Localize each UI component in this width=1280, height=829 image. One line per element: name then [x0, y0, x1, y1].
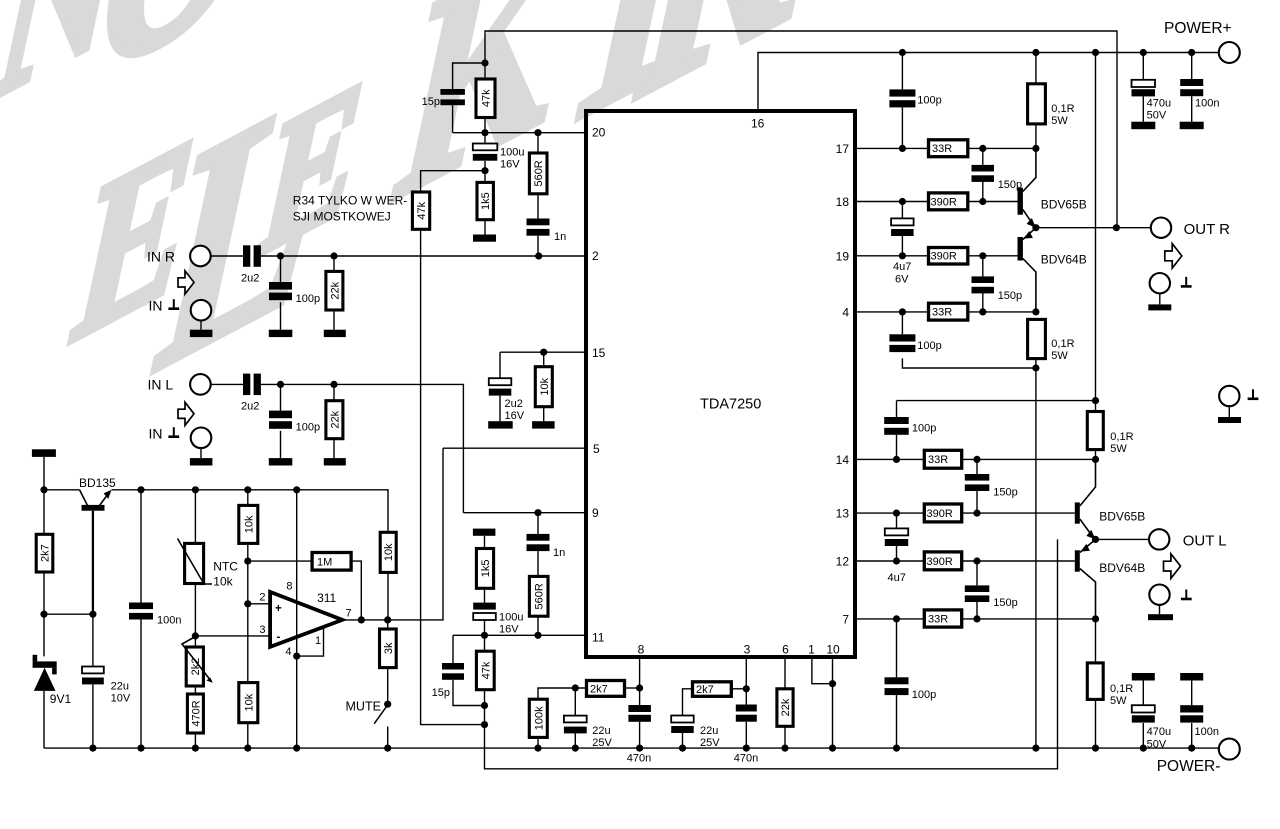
wire wire 22k to gnd [333, 439, 335, 458]
node junction collector BDV64B/0.1R [1032, 308, 1039, 315]
node junction rail/opamp supply [293, 486, 300, 493]
wire wire divider middle [247, 543, 249, 682]
svg-text:25V: 25V [592, 737, 612, 749]
svg-text:NTC: NTC [213, 560, 238, 574]
resistor R 33R pin14 [924, 450, 961, 468]
node junction POWER- rail/100k [534, 745, 541, 752]
wire wire op-amp pin 1 strap [297, 627, 324, 656]
resistor R 1k5 right [477, 182, 493, 219]
svg-text:150p: 150p [998, 290, 1022, 302]
capacitor C 470n first [628, 705, 651, 712]
resistor R 22k pin6 [777, 689, 793, 727]
terminal POWER- terminal [1219, 739, 1240, 760]
wire wire 22u to POWER- rail [574, 733, 576, 748]
node junction 390R/150p left [973, 509, 980, 516]
capacitor C 100p input right [269, 282, 292, 290]
resistor R 3k mute [380, 629, 397, 668]
svg-text:390R: 390R [927, 556, 953, 568]
wire wire 33R pin14 to 0.1R node [962, 458, 1096, 460]
svg-text:15p: 15p [422, 96, 440, 108]
node junction NTC/2k2/minus [192, 632, 199, 639]
wire wire 0.1R to pin14 node [1095, 450, 1097, 460]
node junction POWER- rail/opamp pin4 [293, 745, 300, 752]
node node A 15p/47k/rail [481, 59, 488, 66]
wire wire 390R to BDV65B base [968, 201, 1018, 203]
svg-text:4: 4 [842, 306, 849, 320]
ground ground 22k left [324, 458, 346, 465]
wire wire POWER+ to 0.1R right top [1035, 53, 1037, 84]
capacitor C 1n left [527, 534, 550, 541]
resistor R 0.1R 5W right bottom [1028, 319, 1046, 358]
wire wire junction to R34 [421, 171, 485, 192]
ground bar under 100n top [1180, 122, 1204, 130]
wire wire pin 13 line [855, 512, 925, 514]
node junction 2k7/22u first [572, 684, 579, 691]
svg-text:50V: 50V [1147, 110, 1167, 122]
resistor R 1M feedback [312, 553, 351, 571]
capacitor C 100p pin14 [884, 417, 909, 424]
wire wire NTC to minus node [194, 584, 196, 636]
node junction 47k/R34 [481, 721, 488, 728]
ground ground spare top right [1218, 417, 1241, 423]
node junction POWER- rail/470u bottom [1140, 745, 1147, 752]
wire wire 22u to POWER- rail [92, 684, 94, 748]
svg-text:311: 311 [317, 591, 336, 605]
wire wire pin 17 line [855, 147, 929, 149]
wire wire pin 1 strap [812, 657, 833, 684]
node junction INL/100p [277, 381, 284, 388]
capacitor C 100n top [1180, 79, 1203, 86]
wire wire 100p pin14 top link [897, 400, 1096, 402]
wire wire 100p to pin17 [901, 107, 903, 148]
wire wire 15p bottom to pin20 line [452, 105, 454, 133]
svg-text:BDV65B: BDV65B [1041, 198, 1087, 212]
wire wire POWER+ to 100p pin17 [901, 53, 903, 90]
svg-text:2u2: 2u2 [241, 273, 259, 285]
wire wire 390R to BDV65B base left [962, 512, 1075, 514]
svg-text:470R: 470R [190, 700, 202, 726]
op-amp U2 311 [270, 592, 342, 647]
transistor Q5 BDV64B left [1075, 550, 1080, 571]
wire wire pin 10 to POWER- rail [832, 657, 834, 748]
capacitor C 150p left low [965, 585, 990, 592]
svg-text:BDV64B: BDV64B [1041, 253, 1087, 267]
node mute switch pivot [384, 701, 391, 708]
svg-text:22k: 22k [329, 410, 341, 428]
wire wire to 100p L [280, 384, 282, 410]
resistor R 33R pin17 [929, 140, 968, 157]
node junction collector/0.1R left bottom [1092, 615, 1099, 622]
wire wire 33R pin4 to 0.1R [968, 311, 1036, 313]
ground bar under 1k5 right [473, 235, 496, 242]
svg-text:5W: 5W [1110, 695, 1127, 707]
svg-text:22u: 22u [111, 681, 129, 693]
svg-text:33R: 33R [928, 454, 948, 466]
wire wire 22k to POWER- rail [784, 726, 786, 748]
node junction divider/1M [244, 558, 251, 565]
svg-text:100p: 100p [296, 293, 320, 305]
ground ground 100p left [269, 458, 293, 465]
node junction pin17/100p [899, 145, 906, 152]
wire wire 2u2 to pin 2 [261, 255, 586, 257]
svg-text:TDA7250: TDA7250 [700, 397, 761, 413]
svg-text:33R: 33R [928, 614, 948, 626]
svg-text:5W: 5W [1051, 115, 1068, 127]
wire wire pin 5 line [443, 447, 586, 449]
node junction rail/NTC [192, 486, 199, 493]
ground symbol earth glyph OUT L [1185, 590, 1187, 599]
wire wire 150p to pin7 [976, 602, 978, 619]
wire wire pin 18 line [855, 201, 929, 203]
svg-text:10k: 10k [539, 377, 551, 395]
wire wire 2u2 to gnd [499, 396, 501, 422]
wire wire junction to 1k5 [484, 171, 486, 183]
node junction INR/100p [277, 252, 284, 259]
node junction 33R/150p pin14 [973, 456, 980, 463]
node junction POWER- rail/100p pin7 [893, 745, 900, 752]
resistor R 10k divider top [239, 505, 258, 543]
wire wire POWER- rail [44, 747, 1219, 749]
svg-text:7: 7 [842, 613, 849, 627]
node junction 0.1R/collector left [1092, 456, 1099, 463]
node junction pin4/100p [899, 308, 906, 315]
svg-text:7: 7 [346, 608, 352, 620]
svg-text:15: 15 [592, 346, 606, 360]
node junction V-/100p return [1032, 364, 1039, 371]
resistor R 0.1R 5W right top [1028, 84, 1046, 124]
wire wire 560R to 1n [537, 194, 539, 219]
capacitor C 100n bottom [1180, 705, 1203, 712]
node junction pin4/pin1 [293, 653, 300, 660]
resistor R 22k input left [326, 401, 343, 439]
wire wire IN L to 2u2 [211, 383, 243, 385]
wire wire to 150p top right [982, 148, 984, 165]
wire wire IN L to pin 9 drop [261, 384, 464, 512]
svg-text:3: 3 [744, 643, 751, 657]
resistor R 1k5 left [476, 549, 493, 589]
wire wire feedback OUT L long path [485, 539, 1058, 768]
wire wire 1M right to output [351, 561, 361, 620]
svg-text:4u7: 4u7 [888, 572, 906, 584]
wire feedback rail OUT R to 15p/47k node [485, 31, 1117, 228]
node junction OUTR/feedback rail [1113, 224, 1120, 231]
svg-text:2k7: 2k7 [40, 544, 52, 562]
svg-text:16V: 16V [505, 410, 525, 422]
node junction POWER+/100n [1188, 49, 1195, 56]
node junction POWER- rail/pin10 [829, 745, 836, 752]
wire wire bar to 100n bottom [1191, 681, 1193, 706]
wire wire zener to POWER- rail [43, 691, 45, 748]
capacitor C 100p pin4 [889, 334, 915, 341]
wire wire pin 9 line [463, 512, 586, 514]
node junction pin12/4u7 [893, 557, 900, 564]
resistor R 100k [529, 699, 547, 737]
svg-text:BD135: BD135 [79, 476, 116, 490]
resistor R 2k7 pin8 [587, 681, 625, 697]
wire wire pin 3 down [745, 657, 747, 705]
svg-text:8: 8 [286, 581, 292, 593]
resistor R 47k lower left [476, 651, 494, 690]
capacitor C 100u 16V left [473, 603, 496, 610]
node junction pin7/100p [893, 615, 900, 622]
wire wire zener node to base node [44, 613, 93, 615]
terminal OUT R ground connector [1150, 273, 1170, 293]
wire wire 1k5 to 100u left [484, 588, 486, 602]
node junction 33R/150p pin4 [979, 308, 986, 315]
wire wire pin 15 line [500, 351, 586, 353]
svg-text:17: 17 [836, 142, 850, 156]
wire wire pin 6 down [784, 657, 786, 689]
svg-text:47k: 47k [416, 201, 428, 219]
svg-text:2: 2 [592, 249, 599, 263]
svg-text:560R: 560R [533, 160, 545, 186]
wire wire 2k7 to zener node [43, 572, 45, 614]
ground bar under 470u top [1131, 122, 1155, 130]
wire wire to 150p left top [976, 459, 978, 474]
wire wire 0.1R bottom to POWER- rail V- [1035, 359, 1037, 748]
ground ground IN left [190, 458, 213, 465]
wire wire 15p to 47k node [453, 680, 485, 706]
wire wire 560R to pin11 [537, 616, 539, 635]
wire wire op-amp plus input [248, 603, 270, 605]
node junction 390R/150p left low [973, 557, 980, 564]
terminal spare ground connector top [1219, 386, 1239, 406]
svg-text:100u: 100u [500, 147, 524, 159]
wire wire 100n bottom to rail [1191, 723, 1193, 748]
svg-text:22u: 22u [700, 725, 718, 737]
svg-text:OUT L: OUT L [1183, 533, 1227, 550]
wire wire OUTL gnd stem [1159, 605, 1161, 614]
node junction POWER+/0.1R [1032, 49, 1039, 56]
svg-text:BDV65B: BDV65B [1099, 510, 1145, 524]
svg-text:33R: 33R [932, 307, 952, 319]
node junction POWER- rail/100n bottom [1188, 745, 1195, 752]
wire wire 10k to gnd [543, 407, 545, 422]
wire wire pin18 to 4u7 [901, 202, 903, 219]
svg-text:0,1R: 0,1R [1110, 431, 1133, 443]
transistor Q3 BDV64B right [1018, 237, 1023, 261]
resistor NTC thermistor [185, 543, 204, 583]
ground symbol earth glyph IN right [173, 299, 175, 308]
wire wire node to 2k2 [194, 636, 196, 647]
wire wire 3k to mute switch [387, 668, 389, 705]
svg-text:560R: 560R [534, 583, 546, 609]
node junction 100u/1k5/R34 [481, 167, 488, 174]
wire wire 150p to pin4 line [982, 293, 984, 312]
wire wire 2k7 to pin8 drop [625, 687, 640, 689]
capacitor C 470u 50V bottom [1132, 705, 1155, 712]
svg-text:16V: 16V [499, 624, 519, 636]
svg-text:47k: 47k [480, 661, 492, 679]
svg-text:9V1: 9V1 [50, 692, 72, 706]
svg-text:390R: 390R [931, 196, 957, 208]
svg-text:5W: 5W [1051, 350, 1068, 362]
wire wire to 100p R [280, 256, 282, 282]
node junction out/10k/3k [384, 616, 391, 623]
wire wire 22u second to POWER- rail [682, 733, 684, 748]
wire wire op-amp output to pin 5 drop [342, 448, 443, 620]
node junction pin18/4u7 [899, 198, 906, 205]
wire wire bar to 1k5 left [484, 536, 486, 549]
wire wire rail to 10k upper divider [247, 490, 249, 506]
svg-text:47k: 47k [481, 89, 493, 107]
resistor R 390R pin18 [929, 193, 968, 210]
wire wire pin11 to 47k lower [484, 635, 486, 651]
capacitor C 22u 25V first [564, 716, 587, 723]
resistor R 0.1R 5W left top [1087, 412, 1103, 450]
wire wire 100k top to 2k7 [538, 688, 587, 699]
wire wire 390R to BDV64B base [968, 255, 1018, 257]
resistor R 390R pin13 [924, 504, 961, 522]
node junction POWER- rail/22u second [679, 745, 686, 752]
arrow arrow IN L [178, 402, 194, 425]
wire wire 100n to POWER- rail [140, 620, 142, 749]
svg-text:470n: 470n [734, 753, 758, 765]
wire wire 100u to pin11 [484, 620, 486, 635]
wire wire to 22k L [333, 384, 335, 400]
node junction INL/22k [330, 381, 337, 388]
capacitor C 15p right ch [440, 89, 465, 95]
wire wire 1n to pin2 line [537, 236, 539, 256]
node junction INR/22k [330, 252, 337, 259]
node junction pin20/47k [481, 129, 488, 136]
capacitor C 470n second [736, 705, 757, 712]
wire wire 1k5 to bar [484, 220, 486, 235]
svg-text:5: 5 [593, 442, 600, 456]
svg-text:16V: 16V [500, 159, 520, 171]
ground ground IN right [190, 330, 213, 337]
svg-text:11: 11 [592, 631, 605, 645]
trimmer arrow 2k2 [182, 637, 212, 682]
wire wire in-gnd circle to bar [200, 321, 202, 330]
resistor R 47k feedback right [476, 79, 495, 118]
node junction 33R/150p pin7 [973, 615, 980, 622]
wire POWER+ rail from pin 16 [758, 53, 1219, 112]
terminal IN R connector [190, 246, 211, 267]
svg-text:10k: 10k [243, 693, 255, 711]
node junction pin11/560R [534, 632, 541, 639]
wire wire 100k to POWER- rail [537, 737, 539, 748]
arrow arrow OUT L [1164, 554, 1181, 579]
wire wire 100p to pin14 [896, 435, 898, 460]
svg-text:12: 12 [836, 555, 850, 569]
wire wire pin11 corner to 15p [452, 635, 454, 663]
wire wire bar to 470u bottom [1142, 681, 1144, 706]
wire wire to 150p right low [982, 256, 984, 277]
node junction 390R/150p low [979, 252, 986, 259]
wire wire pin 14 line [855, 458, 925, 460]
node junction rail/100n [137, 486, 144, 493]
svg-text:2u2: 2u2 [505, 398, 523, 410]
resistor R 390R pin19 [929, 248, 968, 265]
wire wire pin 8 down [639, 657, 641, 705]
wire wire 2k2 to 470R [194, 686, 196, 694]
wire wire bias rail to 10k upper [112, 490, 389, 533]
wire wire rail to 100n [140, 490, 142, 603]
node junction pin8/2k7 [636, 684, 643, 691]
wire wire 390R to BDV64B base left [962, 560, 1075, 562]
svg-text:POWER+: POWER+ [1164, 20, 1232, 37]
resistor R 10k pullup [380, 532, 396, 572]
ground ground 10k pin15 [532, 421, 555, 428]
ground bar over 470u bottom [1132, 673, 1155, 681]
svg-text:13: 13 [836, 507, 850, 521]
svg-text:1k5: 1k5 [480, 192, 492, 210]
wire wire node A to 47k [484, 63, 486, 79]
wire wire 100n to end bar [1191, 96, 1193, 122]
svg-text:POWER-: POWER- [1157, 758, 1221, 775]
svg-text:4: 4 [285, 646, 291, 658]
svg-text:2: 2 [259, 592, 265, 604]
svg-text:3: 3 [259, 624, 265, 636]
zener diode D1 9V1 [33, 661, 57, 667]
capacitor 2u2 right (series) [243, 245, 250, 266]
svg-text:18: 18 [836, 195, 850, 209]
wire wire to 22u 10V [92, 614, 94, 666]
node junction pin3/2k7 [743, 685, 750, 692]
node junction rail/10k [244, 486, 251, 493]
wire wire IN R to 2u2 [211, 255, 243, 257]
wire wire mute to POWER- rail [387, 727, 389, 749]
svg-text:100n: 100n [1195, 726, 1219, 738]
arrow arrow OUT R [1165, 244, 1182, 269]
svg-text:100p: 100p [296, 422, 320, 434]
node junction pin20/560R [534, 129, 541, 136]
wire wire OUT L line [1096, 538, 1150, 540]
node junction POWER- rail/470n first [636, 745, 643, 752]
wire wire to 22u 25V first [574, 688, 576, 716]
wire wire spare gnd stem [1228, 406, 1230, 417]
capacitor C 100p input left [269, 411, 292, 419]
svg-text:10V: 10V [111, 693, 131, 705]
node junction POWER- rail/22u first [572, 745, 579, 752]
wire wire 100u to junction [484, 161, 486, 171]
wire wire rail to 2k7 [43, 490, 45, 535]
capacitor C 22u 10V [82, 667, 104, 674]
wire wire 33R to 0.1R node [968, 147, 1036, 149]
svg-text:MUTE: MUTE [346, 700, 381, 714]
svg-text:6V: 6V [895, 274, 909, 286]
wire wire pin20 to 560R [537, 133, 539, 153]
svg-text:1: 1 [808, 643, 815, 657]
svg-text:4u7: 4u7 [893, 261, 911, 273]
wire wire pin4 to 100p [901, 312, 903, 334]
svg-text:25V: 25V [700, 737, 720, 749]
svg-text:5W: 5W [1110, 443, 1127, 455]
resistor R 10k pin15 [535, 367, 552, 407]
svg-text:22u: 22u [592, 725, 610, 737]
node junction POWER+/470u [1140, 49, 1147, 56]
svg-text:2k7: 2k7 [696, 684, 714, 696]
svg-text:1n: 1n [553, 547, 565, 559]
wire wire 1M left [248, 560, 312, 562]
node junction POWER- rail/10k divider [244, 745, 251, 752]
transistor Q1 BD135 [80, 490, 88, 506]
NTC diagonal [178, 539, 213, 585]
capacitor C 22u 25V second [671, 716, 694, 723]
node junction POWER- rail/mute [384, 745, 391, 752]
capacitor C 1n right [527, 219, 550, 226]
wire wire 10k to POWER- rail [247, 723, 249, 748]
svg-text:100p: 100p [912, 423, 936, 435]
transistor Q2 BDV65B right [1018, 188, 1023, 215]
resistor R 390R pin12 [924, 552, 961, 570]
wire wire 470u to end bar [1142, 97, 1144, 122]
wire wire 15p top to node A [453, 63, 485, 89]
capacitor C 100p pin7 [885, 677, 909, 684]
transistor Q4 BDV65B left [1075, 502, 1080, 523]
resistor R 2k2 trimmer [186, 647, 203, 686]
